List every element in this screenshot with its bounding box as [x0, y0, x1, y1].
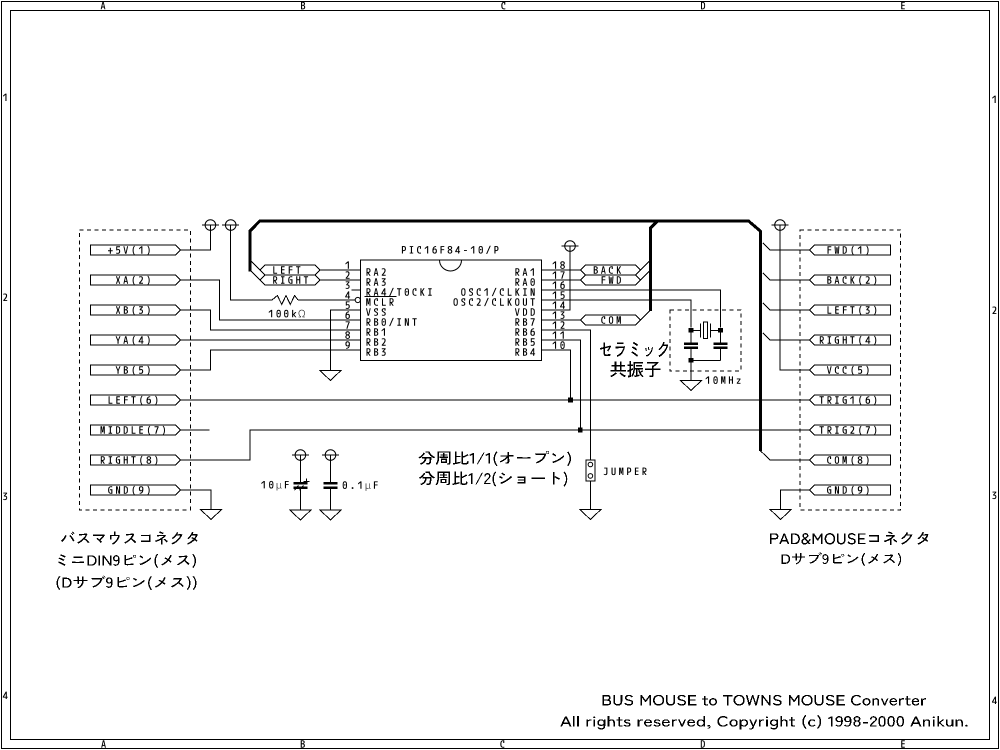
connector J1 bus-mouse dashed outline: [80, 230, 191, 510]
power symbol C3: [292, 450, 309, 461]
net label BACK: [581, 265, 641, 275]
note J1 line3 D-sub9: [57, 576, 197, 591]
pin number 7: [346, 321, 350, 328]
note J2 line2 D-sub9: [782, 552, 902, 566]
wire VSS to ground: [330, 310, 360, 371]
wire LEFT(6) to TRIG1(6) net: [181, 399, 810, 401]
power symbol VCC: [772, 220, 789, 231]
IC pin name RB2: [367, 338, 386, 346]
IC pin name RA1: [515, 268, 534, 276]
wire pin17 to FWD tag: [541, 279, 580, 281]
IC pin name VDD: [515, 308, 535, 316]
bus entry BACK: [641, 260, 651, 270]
wire resistor to MCLR bubble: [298, 299, 355, 301]
bus exit to BACK(2): [763, 273, 810, 280]
wire VDD pin14 to power: [541, 246, 570, 310]
pin 3 stub RA4: [352, 289, 361, 291]
capacitor C3 10uF electrolytic: [293, 455, 309, 510]
node OSC1 junction: [689, 328, 694, 333]
pin number 12: [553, 321, 565, 329]
wire VCC power to VCC(5): [780, 225, 810, 370]
IC pin name RB3: [367, 348, 386, 356]
ground right connector: [770, 510, 791, 520]
pin GND(9) tag: [810, 485, 891, 495]
pin TRIG2(7) tag: [810, 425, 891, 435]
note resonator line2 resonator: [610, 361, 660, 377]
net label FWD: [581, 275, 641, 285]
pin number 13: [553, 311, 565, 319]
border row numbers right: [992, 96, 997, 704]
IC U1 PIC16F84 body: [361, 260, 542, 361]
border column letters bottom: [101, 740, 905, 748]
wire jumper to ground: [589, 481, 591, 510]
MCLR overline: [365, 295, 397, 297]
wire power to resistor: [231, 225, 272, 300]
MCLR inverting bubble: [355, 297, 360, 302]
wire YA(4) to RB2: [181, 339, 361, 341]
pin RIGHT(4) tag: [810, 335, 891, 345]
wire RB4 pin10 to TRIG1 net: [541, 350, 570, 400]
IC pin name RB6: [515, 328, 534, 336]
pin number 1: [346, 261, 349, 268]
IC pin name MCLR: [366, 298, 394, 306]
wire OSC2 pin15: [541, 300, 691, 328]
net label LEFT: [260, 265, 320, 275]
pin BACK(2) tag: [810, 275, 891, 285]
pin GND(9) tag: [90, 485, 180, 495]
ground C4: [320, 510, 341, 520]
title line1: [602, 695, 926, 706]
pin XB(3) tag: [90, 305, 180, 315]
net label COM: [581, 315, 641, 325]
pin TRIG1(6) tag: [810, 395, 891, 405]
pin YA(4) tag: [90, 335, 180, 345]
pin number 10: [553, 341, 565, 349]
IC pin name RA4/T0CKI: [367, 288, 432, 296]
connector J2 pad-mouse dashed outline: [800, 230, 901, 510]
pin LEFT(6) tag: [90, 395, 180, 405]
wire RB5 pin11 to TRIG2 net: [541, 340, 580, 430]
wire MIDDLE(7) stub: [181, 429, 210, 431]
wire RIGHT tag to pin2: [320, 279, 360, 281]
jumper label: [604, 468, 647, 476]
note jumper ratio 1/1 open: [419, 451, 571, 466]
IC pin name OSC1/CLKIN: [461, 288, 534, 296]
power symbol +5V left: [202, 220, 219, 231]
ground C3: [290, 510, 311, 520]
bus thick branch mid: [651, 221, 658, 311]
wire RIGHT(8) to TRIG2(7) net: [181, 430, 810, 460]
pin number 8: [345, 331, 350, 339]
pin number 11: [553, 331, 564, 338]
border row numbers left: [3, 94, 8, 699]
node OSC2 junction: [718, 328, 723, 333]
wire resonator bottom rail: [691, 359, 721, 361]
bus exit to RIGHT(4): [763, 333, 810, 340]
pin VCC(5) tag: [810, 365, 891, 375]
bus exit to LEFT(3): [763, 303, 810, 310]
IC pin name RB7: [515, 318, 534, 326]
bus entry RIGHT: [251, 271, 260, 280]
pin MIDDLE(7) tag: [90, 425, 180, 435]
IC pin name RA2: [367, 268, 386, 276]
ground left connector: [201, 510, 222, 520]
note resonator line1 ceramic: [600, 342, 668, 357]
pin number 14: [553, 301, 565, 308]
bus entry LEFT: [251, 260, 261, 270]
pin number 17: [553, 271, 565, 278]
note jumper ratio 1/2 short: [419, 472, 567, 487]
bus exit to COM(8): [760, 451, 809, 460]
net label RIGHT: [260, 275, 320, 285]
IC pin name RA0: [515, 278, 534, 286]
resonator 10MHz label: [706, 376, 741, 384]
pin number 9: [345, 341, 350, 349]
ground resonator: [681, 381, 702, 391]
pin number 5: [346, 301, 350, 309]
IC pin name RB1: [367, 328, 386, 336]
ground jumper: [580, 510, 601, 520]
wire XB(3) to RB1: [181, 310, 361, 330]
wire +5V(1) to power: [181, 225, 211, 250]
IC pin name RB0/INT: [367, 318, 417, 326]
wire OSC1 pin16: [541, 290, 720, 328]
wire YB(5) to RB3: [181, 350, 361, 370]
wire RB6 pin12 to jumper: [541, 330, 590, 460]
capacitor C2 internal right: [714, 333, 728, 361]
title line2 copyright: [560, 715, 967, 730]
note J1 line2 mini-DIN9: [58, 554, 196, 568]
note J2 line1 pad-mouse-connector: [770, 531, 929, 544]
wire pin18 to BACK tag: [541, 269, 580, 271]
wire pin13 to COM tag: [541, 319, 580, 321]
border column letters top: [101, 2, 905, 10]
IC pin name OSC2/CLKOUT: [454, 298, 535, 306]
wire GND(9) right to ground: [781, 490, 810, 510]
IC pin name VSS: [366, 308, 386, 316]
pin number 18: [553, 261, 565, 269]
pin number 16: [553, 281, 565, 289]
wire resonator to ground: [690, 360, 692, 380]
IC U1 part number label: [402, 246, 499, 254]
node junction TRIG1/RB4: [568, 398, 573, 403]
resistor R1 value label 100k: [269, 310, 305, 318]
node junction TRIG2/RB5: [578, 428, 583, 433]
pin XA(2) tag: [90, 275, 180, 285]
pin number 6: [345, 311, 350, 319]
pin RIGHT(8) tag: [90, 455, 180, 465]
pin number 4: [345, 291, 350, 298]
IC pin name RB4: [515, 348, 535, 356]
capacitor C4 0.1uF: [324, 455, 338, 510]
capacitor C1 internal left: [684, 333, 698, 358]
pin YB(5) tag: [90, 365, 180, 375]
pin number 2: [346, 271, 350, 279]
node resonator gnd junction: [689, 358, 694, 363]
ground VSS: [320, 371, 341, 381]
pin +5V(1) tag: [90, 245, 180, 255]
wire GND(9) left to ground: [181, 490, 211, 510]
pin COM(8) tag: [810, 455, 891, 465]
capacitor C3 value 10uF: [261, 481, 288, 491]
power symbol VDD: [562, 241, 579, 252]
pin LEFT(3) tag: [810, 305, 891, 315]
resonator dashed outline: [670, 310, 741, 371]
power symbol C4: [322, 450, 339, 461]
jumper JP1: [586, 460, 595, 481]
bus entry FWD: [641, 270, 651, 280]
IC pin name RA3: [367, 278, 386, 286]
power symbol MCLR pullup: [222, 220, 239, 231]
bus thick main: [250, 221, 761, 451]
wire XA(2) to RB0: [181, 280, 361, 320]
pin number 15: [553, 291, 565, 299]
capacitor C4 value 0.1uF: [343, 481, 378, 491]
resistor R1 100k zigzag: [272, 296, 298, 305]
IC pin name RB5: [515, 338, 534, 346]
bus exit to FWD(1): [763, 243, 810, 250]
note J1 line1 bus-mouse-connector: [61, 531, 198, 544]
wire LEFT tag to pin1: [320, 269, 360, 271]
pin FWD(1) tag: [810, 245, 891, 255]
crystal X1: [691, 322, 721, 338]
pin number 3: [346, 281, 350, 289]
bus entry COM: [641, 309, 652, 320]
